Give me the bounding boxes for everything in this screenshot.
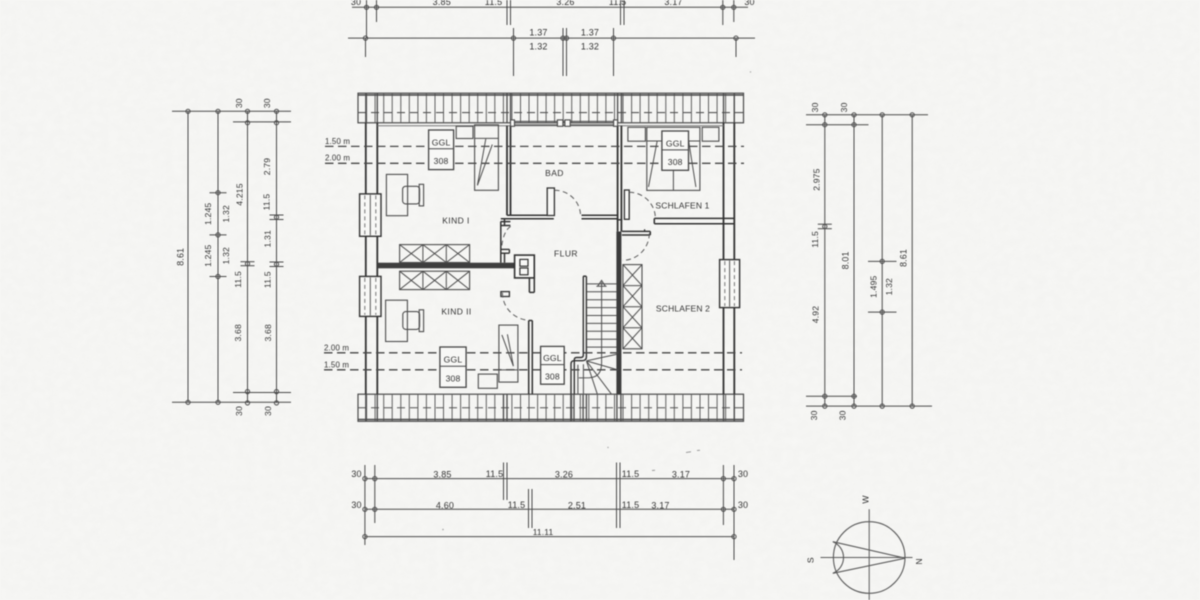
wall KIND II east upper <box>528 278 530 293</box>
svg-text:1.32: 1.32 <box>221 247 231 264</box>
svg-text:GGL: GGL <box>444 355 463 365</box>
wall SCHLAFEN 1 south <box>654 217 734 219</box>
svg-text:1.495: 1.495 <box>869 275 879 297</box>
dimension chain bottom row 1: 30/3.85/11.5/3.26/11.5/3.17/30 <box>365 478 734 480</box>
roof overhang band top (hatched) <box>358 93 744 123</box>
svg-text:11.5: 11.5 <box>622 469 640 479</box>
dimension chain top row 2: 1.37/1.37 and 1.32/1.32 <box>348 37 755 39</box>
KIND II bed <box>499 325 518 382</box>
wall KIND I / BAD <box>506 126 508 216</box>
svg-text:11.5: 11.5 <box>485 0 503 7</box>
svg-text:3.17: 3.17 <box>672 470 690 480</box>
outer wall left <box>365 123 367 394</box>
stair landing treads <box>578 364 584 393</box>
wall lines crossing bands <box>365 93 367 123</box>
window band BAD north <box>511 120 618 122</box>
svg-text:2.51: 2.51 <box>568 500 586 510</box>
svg-text:3.17: 3.17 <box>664 0 682 7</box>
svg-text:FLUR: FLUR <box>554 248 578 258</box>
KIND II nightstand <box>478 374 497 388</box>
svg-text:8.01: 8.01 <box>840 251 850 269</box>
svg-text:30: 30 <box>738 469 748 479</box>
right dim line R2 total 8.01 <box>853 115 855 406</box>
door SCHLAFEN 1 swing arc <box>629 192 655 218</box>
chimney FLUR with two flues <box>515 255 535 278</box>
SCHLAFEN 1 nightstand right <box>702 127 719 141</box>
stair enclosure wall (L-shaped) <box>571 276 586 394</box>
svg-text:N: N <box>914 558 924 564</box>
svg-text:1.245: 1.245 <box>203 203 213 225</box>
stair winder treads (fan) <box>586 354 617 394</box>
svg-text:4.92: 4.92 <box>810 306 820 323</box>
KIND II chair <box>403 312 420 330</box>
wall KIND II east lower <box>528 321 530 395</box>
svg-text:30: 30 <box>838 410 848 420</box>
svg-text:30: 30 <box>809 410 819 420</box>
door BAD swing arc <box>555 190 581 216</box>
svg-text:1.32: 1.32 <box>884 278 894 295</box>
wall KIND I / KIND II (solid) <box>377 263 515 269</box>
svg-text:11.5: 11.5 <box>261 194 271 211</box>
svg-text:30: 30 <box>738 500 748 510</box>
svg-text:11.5: 11.5 <box>262 271 272 288</box>
svg-text:308: 308 <box>668 157 683 167</box>
svg-text:2.79: 2.79 <box>262 158 272 175</box>
svg-text:KIND II: KIND II <box>441 307 471 317</box>
svg-text:3.26: 3.26 <box>556 0 574 7</box>
KIND I desk <box>386 174 407 215</box>
svg-text:3.68: 3.68 <box>263 324 273 341</box>
dimension chain bottom row 2: 30/4.60/11.5/2.51/11.5/3.17/30 <box>365 508 734 510</box>
left dimension column tail lines <box>172 110 291 112</box>
KIND I bed <box>475 125 499 191</box>
svg-text:2.975: 2.975 <box>811 168 821 190</box>
svg-text:W: W <box>861 495 871 504</box>
compass circle <box>833 522 905 594</box>
chimney right wall <box>720 260 740 308</box>
svg-text:3.85: 3.85 <box>433 0 451 7</box>
right dim line R1 30/2.975/11.5/4.92/30 <box>824 115 826 406</box>
svg-text:1.37: 1.37 <box>529 28 547 38</box>
stair walking line with arrow <box>579 282 602 378</box>
svg-text:1.50 m: 1.50 m <box>325 137 350 146</box>
stair treads <box>587 284 617 347</box>
svg-text:2.00 m: 2.00 m <box>325 154 350 163</box>
KIND II desk <box>386 300 408 341</box>
scan specks <box>442 71 751 530</box>
svg-text:30: 30 <box>351 500 361 510</box>
compass axis vertical (W) <box>868 509 870 600</box>
svg-text:1.32: 1.32 <box>529 42 547 52</box>
left dim line L4 30/2.79/11.5/1.31/11.5/3.68/30 <box>276 111 278 403</box>
stair wall east (thick) <box>616 232 621 395</box>
svg-text:SCHLAFEN 2: SCHLAFEN 2 <box>656 303 710 313</box>
svg-text:4.60: 4.60 <box>436 500 454 510</box>
svg-text:11.5: 11.5 <box>622 500 640 510</box>
svg-text:30: 30 <box>351 469 361 479</box>
wardrobe KIND I (x-cells) <box>400 245 470 263</box>
door KIND II swing arc <box>502 293 527 321</box>
compass axis horizontal (S-N) <box>821 557 913 559</box>
svg-text:30: 30 <box>234 406 244 416</box>
svg-text:11.11: 11.11 <box>533 527 554 537</box>
door KIND I swing arc <box>502 226 511 249</box>
chimney left wall lower <box>360 276 381 316</box>
svg-text:1.245: 1.245 <box>203 244 213 266</box>
dimension chain top row 1: 30/3.85/11.5/3.26/11.5/3.17/30 <box>352 6 748 8</box>
svg-text:3.68: 3.68 <box>233 324 243 341</box>
right dimension column tail lines <box>806 114 928 116</box>
svg-text:30: 30 <box>263 406 273 416</box>
svg-text:2.00 m: 2.00 m <box>324 344 349 353</box>
wall KIND I east lower with door <box>500 222 502 263</box>
roof window GGL 308 KIND I <box>429 130 454 170</box>
KIND I chair <box>403 186 420 204</box>
svg-text:SCHLAFEN 1: SCHLAFEN 1 <box>655 201 709 211</box>
left dim line L1 total 8.61 <box>187 111 189 402</box>
svg-text:8.61: 8.61 <box>176 248 186 266</box>
left dim line L2 1.245/1.32 pairs <box>217 111 219 402</box>
compass needle <box>833 542 905 574</box>
svg-text:11.5: 11.5 <box>233 271 243 288</box>
wall BAD / SCHLAFEN 1 <box>617 126 619 232</box>
svg-text:30: 30 <box>839 102 849 112</box>
SCHLAFEN 1 nightstand left <box>628 127 646 141</box>
wardrobe KIND II (x-cells) <box>400 271 470 289</box>
svg-text:30: 30 <box>351 0 361 7</box>
left dim line L3 30/4.215/11.5/3.68/30 <box>247 111 249 403</box>
svg-text:4.215: 4.215 <box>234 183 244 205</box>
svg-text:11.5: 11.5 <box>486 469 504 479</box>
svg-text:1.31: 1.31 <box>262 230 272 247</box>
right dim line R4 total 8.61 <box>911 115 913 406</box>
svg-text:1.32: 1.32 <box>221 205 231 222</box>
roof overhang band bottom (hatched) <box>358 394 744 421</box>
svg-text:BAD: BAD <box>545 168 564 178</box>
door KIND II leaf <box>501 292 510 297</box>
svg-text:3.85: 3.85 <box>433 470 451 480</box>
svg-text:S: S <box>806 557 816 563</box>
roof window GGL 308 KIND II <box>440 347 466 387</box>
right dim line R3 1.495/1.32 <box>881 115 883 406</box>
KIND I nightstand <box>456 126 473 138</box>
outer wall right <box>723 123 725 394</box>
svg-text:30: 30 <box>234 98 244 108</box>
svg-text:11.5: 11.5 <box>810 231 820 248</box>
svg-text:3.26: 3.26 <box>555 470 573 480</box>
svg-text:8.61: 8.61 <box>899 249 909 267</box>
svg-text:30: 30 <box>744 0 754 7</box>
roof window GGL 308 FLUR <box>541 346 565 384</box>
svg-text:1.50 m: 1.50 m <box>324 361 349 370</box>
svg-text:GGL: GGL <box>666 139 685 149</box>
svg-text:30: 30 <box>262 98 272 108</box>
door SCHLAFEN 1 leaf <box>624 190 629 219</box>
door jamb wall 2 <box>617 219 622 221</box>
svg-text:308: 308 <box>446 373 461 383</box>
inner face line under top band <box>377 125 723 127</box>
wall BAD south with door opening <box>507 214 554 216</box>
chimney left wall upper <box>360 194 381 236</box>
svg-text:KIND I: KIND I <box>442 216 470 226</box>
roof window GGL 308 SCHLAFEN 1 <box>662 131 689 170</box>
svg-text:GGL: GGL <box>543 353 562 363</box>
svg-text:308: 308 <box>434 156 449 166</box>
svg-text:3.17: 3.17 <box>651 500 669 510</box>
dimension chain bottom total 11.11 <box>365 536 734 538</box>
svg-text:1.32: 1.32 <box>581 42 599 52</box>
svg-text:1.37: 1.37 <box>581 28 599 38</box>
svg-text:308: 308 <box>545 371 560 381</box>
door SCHLAFEN 2 swing arc <box>623 233 650 260</box>
wall SCHLAFEN 2 north with door <box>622 230 650 232</box>
SCHLAFEN 1 double bed <box>647 127 700 190</box>
svg-text:11.5: 11.5 <box>609 0 627 7</box>
door BAD leaf <box>547 188 554 216</box>
svg-text:30: 30 <box>810 102 820 112</box>
svg-text:11.5: 11.5 <box>508 500 526 510</box>
svg-text:GGL: GGL <box>432 138 451 148</box>
wardrobe SCHLAFEN 2 (x-cells vertical) <box>623 265 642 349</box>
